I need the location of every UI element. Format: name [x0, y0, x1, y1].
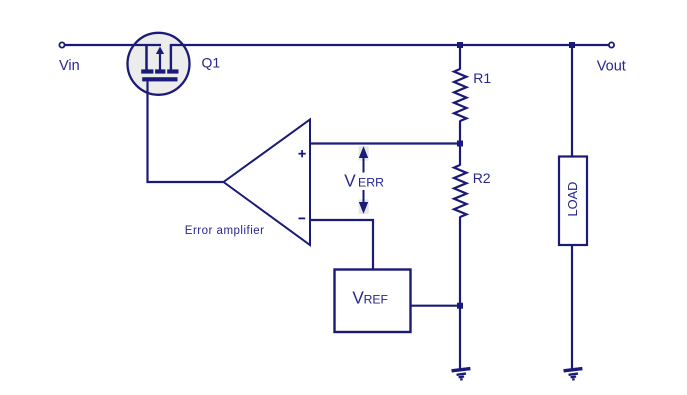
svg-text:R1: R1 [473, 70, 491, 86]
svg-text:REF: REF [364, 292, 388, 306]
svg-text:Error amplifier: Error amplifier [185, 225, 265, 237]
Q1 drain contact bar [167, 69, 178, 73]
Q1 gate bar [142, 77, 177, 81]
Q1 source contact bar [141, 69, 153, 73]
svg-text:Vin: Vin [59, 58, 80, 74]
VERR arrow artifact top [359, 146, 369, 161]
svg-text:V: V [344, 171, 356, 191]
wire Vin to arrow gap (top rail left segment) [65, 44, 162, 46]
svg-text:ERR: ERR [358, 176, 384, 190]
Q1 drain lead [170, 45, 172, 70]
terminal Vout [609, 42, 614, 47]
terminal Vin [59, 42, 64, 47]
wire op-amp minus input to VREF [310, 220, 373, 270]
resistor R2 [459, 144, 461, 166]
op-amp minus input marker [299, 217, 306, 219]
svg-text:Vout: Vout [597, 59, 626, 75]
label VERR [342, 173, 387, 191]
ground symbol left [451, 367, 471, 382]
resistor R1 [459, 45, 461, 70]
VREF box [335, 270, 411, 333]
VERR arrow artifact bottom [359, 200, 369, 215]
svg-text:LOAD: LOAD [565, 182, 580, 217]
op-amp plus input marker [299, 153, 306, 155]
svg-text:Q1: Q1 [202, 55, 221, 71]
LOAD box [559, 157, 587, 246]
wire arrow gap to Vout (top rail right segment) [170, 44, 610, 46]
wire VREF output to R2 bottom node [411, 305, 461, 307]
wire Q1 gate lead down and to op-amp output [148, 81, 224, 182]
op-amp U1 error amplifier triangle [224, 120, 311, 246]
Q1 body contact bar [155, 69, 165, 73]
svg-text:R2: R2 [473, 170, 491, 186]
Q1 body arrow [159, 53, 161, 70]
node R1/R2 feedback junction [457, 141, 463, 147]
VERR measurement arrow [363, 154, 365, 206]
wire Vout rail down to LOAD [571, 45, 573, 157]
wire LOAD bottom to ground [571, 245, 573, 372]
Q1 source lead [145, 45, 148, 70]
node R1 top junction [457, 42, 463, 48]
node R2/VREF junction [457, 303, 463, 309]
wire op-amp plus input to R1/R2 node [310, 142, 460, 144]
transistor Q1 body circle [128, 33, 190, 95]
svg-text:V: V [352, 287, 364, 307]
ground symbol right [563, 367, 583, 382]
node LOAD top junction [569, 42, 575, 48]
